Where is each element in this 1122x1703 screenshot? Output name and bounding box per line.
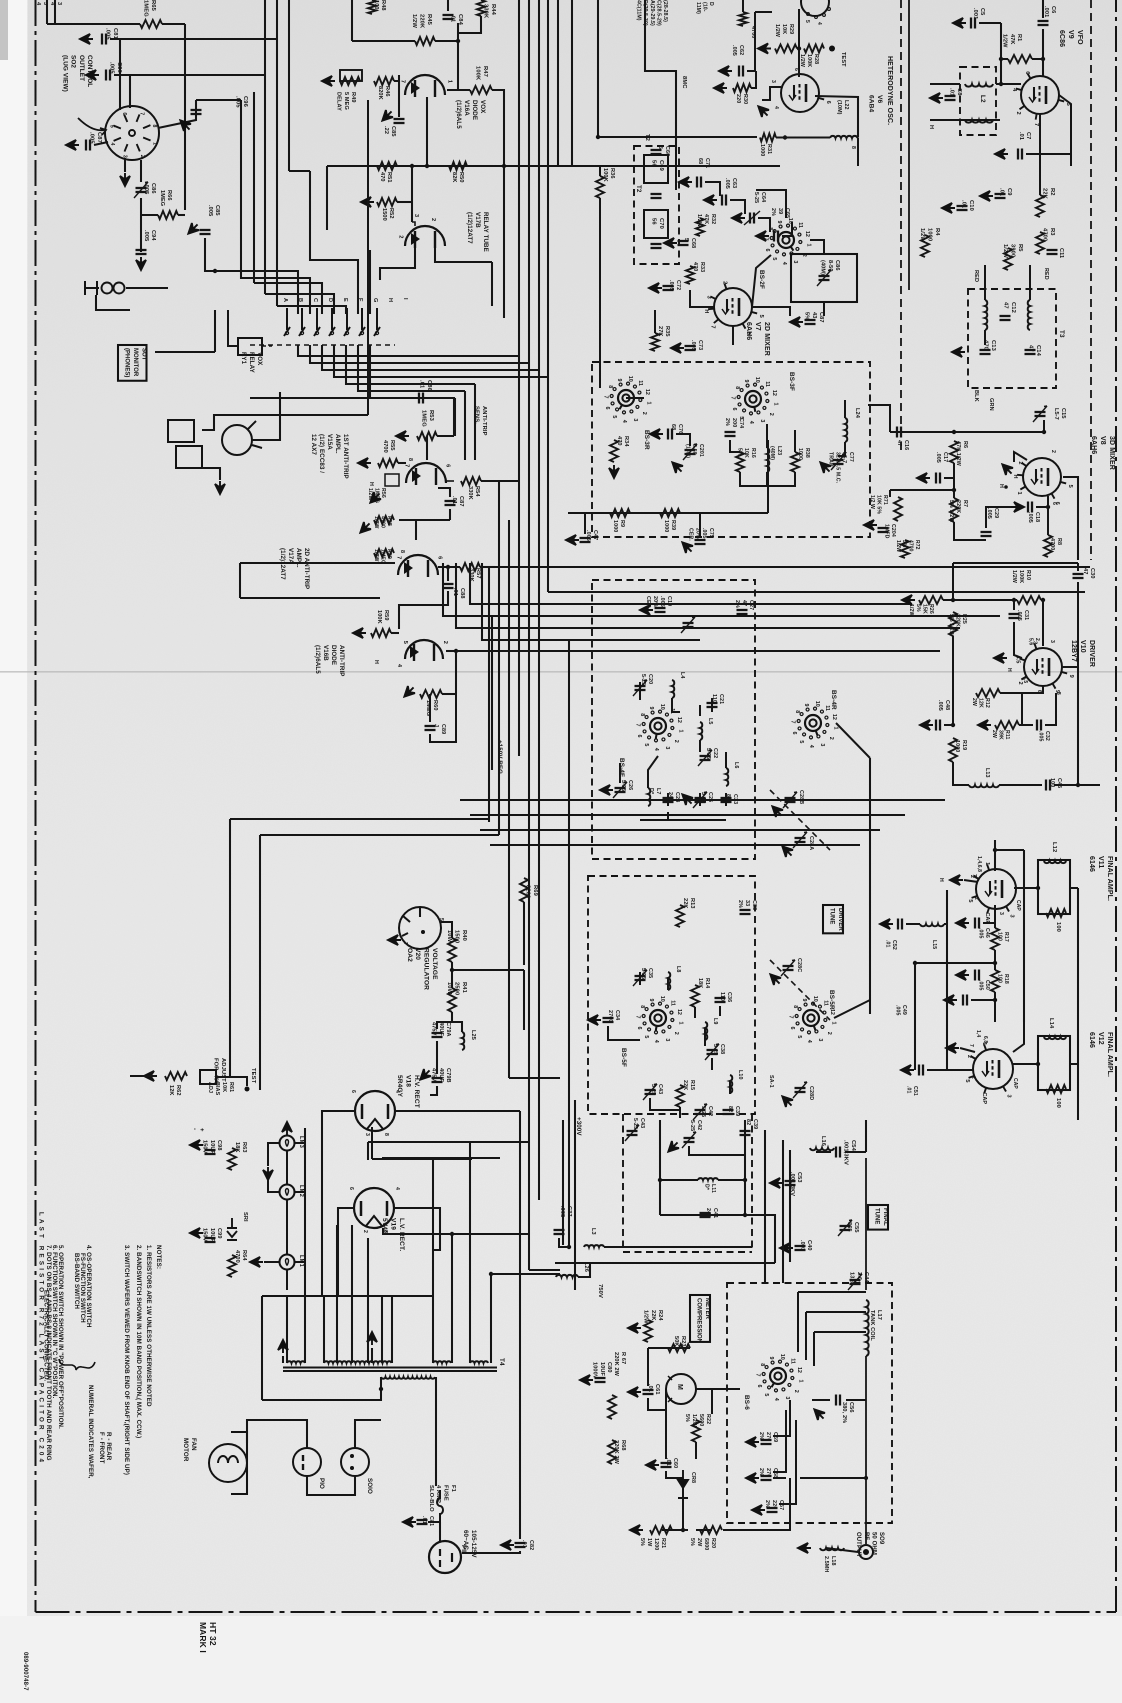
svg-text:1: 1 [805,243,811,246]
wire key jack lead [252,392,280,440]
wire tank tap [813,1332,815,1366]
wire [492,90,504,166]
ground [980,191,993,201]
junction [999,82,1003,86]
wire [954,522,986,540]
capacitor C60 [661,1462,672,1464]
resistor R47 [470,86,492,94]
wire [1077,1064,1079,1120]
wire [446,650,456,652]
svg-text:1/2W: 1/2W [1002,244,1008,258]
wire [946,890,948,1070]
svg-text:8: 8 [151,125,157,128]
svg-text:2: 2 [673,1032,679,1035]
svg-text:.005: .005 [701,528,707,539]
ground C48 [920,720,933,730]
svg-text:DELAY: DELAY [336,92,342,111]
ground R29 [758,44,771,54]
svg-text:6: 6 [731,408,737,411]
svg-text:82: 82 [745,1119,751,1125]
wire [268,1143,279,1166]
svg-text:TEST: TEST [250,1068,256,1084]
svg-text:1. RESISTORS ARE 1W UNLESS OTH: 1. RESISTORS ARE 1W UNLESS OTHERWISE NOT… [145,1245,152,1407]
svg-text:CER.: CER. [688,528,694,541]
wire [562,1120,564,1245]
wire [240,100,242,271]
svg-text:5-25: 5-25 [712,1044,718,1055]
ground R58 [360,522,371,533]
wire [660,1214,745,1216]
label R1 [1002,34,1022,48]
svg-text:7: 7 [968,1044,974,1047]
svg-text:V8: V8 [1099,436,1106,445]
pin label [975,1030,981,1037]
svg-text:R23: R23 [680,1336,686,1347]
label BLK [973,390,979,402]
svg-text:R34: R34 [623,436,629,447]
svg-text:C77: C77 [848,452,854,462]
svg-text:.01: .01 [999,188,1005,197]
wire [695,1442,697,1459]
svg-text:9: 9 [648,707,654,710]
svg-text:C43: C43 [657,1084,663,1094]
svg-text:J: J [433,724,439,727]
node H [928,125,934,129]
ground R34 [609,465,619,478]
ground R52 [361,197,374,207]
transformer T4 winding [470,1361,488,1363]
wire [215,271,298,314]
wire tank tap [798,1291,866,1293]
svg-text:H: H [938,878,944,882]
svg-text:43: 43 [811,312,817,318]
svg-text:C82: C82 [528,1540,534,1550]
transformer T2 winding C70 [644,210,668,238]
inductor L17 tank coil [866,1300,869,1356]
svg-text:9: 9 [648,999,654,1002]
trimmer C77 [842,453,845,456]
svg-text:10UF: 10UF [209,1140,215,1155]
svg-text:27K: 27K [657,326,663,337]
svg-text:12: 12 [804,231,810,237]
capacitor C58 [761,1479,772,1481]
label V9 VFO [1058,30,1083,47]
resistor R19 [949,738,957,762]
capacitor C30 [1073,577,1084,579]
inductor L8 [668,972,670,990]
svg-text:C28A: C28A [808,836,814,850]
label LM3 [298,1136,304,1149]
svg-text:7: 7 [403,464,409,467]
note 4 rear [105,1432,112,1461]
wire [471,1159,473,1363]
label C79A [431,1022,451,1037]
svg-text:220K 2W: 220K 2W [613,1440,619,1465]
svg-text:.001: .001 [1043,6,1049,17]
resistor R33 [686,266,694,284]
capacitor C86a [134,182,148,198]
trimmer C42 [704,1103,707,1106]
svg-text:6: 6 [764,249,770,252]
vacuum tube V11 final amplifier 6146 [967,862,1016,924]
capacitor C8 [945,99,956,101]
svg-text:C73: C73 [697,340,703,350]
ground C81 [80,34,93,44]
label C34 [607,1010,620,1022]
label V15A [310,434,349,479]
ground C77 [820,462,831,473]
svg-text:12 AX7: 12 AX7 [310,434,317,455]
label R68 [613,1440,626,1465]
wire [766,472,768,486]
svg-text:MONITOR: MONITOR [132,348,138,377]
svg-text:6: 6 [437,556,443,559]
svg-text:1/2W: 1/2W [919,228,925,242]
trimmer C43b [627,1134,638,1136]
svg-text:1/2W: 1/2W [373,516,379,529]
svg-text:.005: .005 [207,205,213,216]
svg-text:C55: C55 [853,1222,859,1233]
border bottom [36,1611,1117,1613]
trimmer C28D [795,1087,806,1089]
resistor R6 [950,441,958,463]
svg-text:C11: C11 [1058,248,1064,258]
wire [718,1179,745,1181]
ground V12 [946,1043,959,1053]
capacitor C76 [667,429,669,440]
svg-text:BS-5F: BS-5F [620,1048,627,1067]
capacitor C48 [939,720,941,731]
svg-text:5 MEG: 5 MEG [343,92,349,110]
label V6 [868,95,884,112]
svg-text:9: 9 [803,704,809,707]
junction [410,164,414,168]
wire [762,87,781,100]
capacitor C36 [715,997,726,999]
trimmer C43 [654,1083,657,1086]
wire [626,397,644,399]
svg-text:380, 2%: 380, 2% [841,1402,847,1423]
capacitor C7 [1021,149,1023,160]
trimmer C43 [643,1084,657,1100]
svg-text:11: 11 [822,1000,828,1006]
label C28D [808,1086,814,1100]
wire bus [474,384,476,460]
svg-text:FAN: FAN [190,1438,197,1451]
label C89 [433,724,446,734]
wire bus mid [548,591,1085,593]
wire [447,89,470,91]
svg-text:C99: C99 [216,1228,222,1239]
capacitor C87 [85,140,87,151]
svg-text:R10: R10 [1025,570,1031,580]
svg-text:C79A: C79A [445,1022,451,1037]
wire [953,692,956,694]
capacitor C39 [740,1130,751,1132]
wire [659,1120,661,1215]
label R52 [381,208,394,221]
capacitor C40 [795,1249,806,1251]
svg-text:2.6-: 2.6- [856,1272,862,1282]
svg-text:2: 2 [1015,111,1021,114]
label C26 [620,780,633,791]
wire [776,137,830,139]
svg-text:4700: 4700 [1049,538,1055,550]
capacitor C23 [721,797,732,799]
pin label [402,942,408,945]
resistor R24 [644,1320,652,1342]
wire [430,1086,437,1095]
label C28C [796,958,802,972]
label R8 [1049,538,1062,550]
svg-text:5-25: 5-25 [753,192,759,203]
svg-text:1: 1 [984,862,990,865]
svg-text:10UF: 10UF [209,1228,215,1243]
junction [1041,598,1045,602]
resistor R20 [700,1526,722,1534]
svg-text:10: 10 [814,701,820,707]
lamp LM3 [280,1136,295,1151]
label C43 [632,1118,645,1129]
label 750V [597,1284,603,1298]
svg-text:R4: R4 [934,228,940,236]
capacitor C12 [1000,319,1011,321]
ground C76 [650,429,663,439]
capacitor C53 [785,1180,796,1182]
svg-text:2: 2 [1017,461,1023,464]
label C85 [207,205,220,216]
wire [538,1120,540,1200]
wire grid feed V12 [1023,850,1025,1022]
trimmer C201 [694,443,697,446]
svg-text:220: 220 [771,1500,777,1509]
svg-text:C15: C15 [1060,408,1066,419]
resistor R7 [950,498,958,522]
wire [766,424,768,448]
svg-text:(1/2) ECC83 /: (1/2) ECC83 / [318,434,325,473]
ground C42 [668,1141,679,1152]
capacitor C79B [432,1081,443,1083]
wire [399,591,448,629]
capacitor C56 [839,1395,841,1406]
ground [190,1228,203,1238]
resistor L14 100 [1046,1085,1066,1093]
wire [435,40,458,42]
label C62 [731,45,744,56]
label R36 [602,168,615,182]
svg-text:5-25: 5-25 [689,1120,695,1131]
wire [436,1041,438,1074]
svg-text:15K: 15K [921,604,927,614]
resistor R35 [651,333,659,351]
trimmer C55 [849,1219,852,1222]
junction [952,430,956,434]
inductor L18 [820,1548,844,1550]
capacitor C90 [105,70,107,81]
svg-text:MARK I: MARK I [198,1622,208,1653]
label R2 [1042,188,1055,200]
wire [442,693,456,695]
svg-text:L2: L2 [979,95,986,103]
scan shading gradient [0,0,1,1]
svg-text:56: 56 [651,218,657,225]
note 6 [51,1245,58,1399]
trimmer C42 [682,1132,696,1148]
junction [993,848,997,852]
trimmer C28A [795,837,806,839]
label R26 [908,604,934,617]
wire [604,1246,752,1248]
label V19 LV rect [381,1218,405,1251]
svg-text:2: 2 [1050,450,1056,453]
svg-text:C13: C13 [990,340,996,352]
wire [399,519,450,521]
transformer T3 primary [985,300,987,330]
wire [331,1495,436,1520]
svg-text:6800: 6800 [703,1538,709,1550]
label C86 [820,260,840,275]
wire [47,23,140,25]
wire [519,1111,521,1274]
svg-text:+: + [198,1128,204,1132]
label C10 [961,200,974,211]
svg-text:V15A: V15A [326,434,333,450]
label C96 [235,96,248,108]
resistor R44 [477,0,485,16]
wire [202,468,220,480]
svg-text:L16: L16 [820,1136,826,1146]
wire [696,1529,712,1531]
svg-text:100K: 100K [806,54,812,67]
svg-text:TUNE: TUNE [829,908,835,924]
svg-text:R46: R46 [384,86,390,97]
capacitor C70 [651,243,662,245]
pin label [793,68,799,71]
svg-text:2W: 2W [696,1538,702,1547]
junction [489,1272,493,1276]
wire [503,166,505,318]
svg-text:C14: C14 [1035,345,1041,357]
label LM2 [298,1185,304,1197]
ground [600,785,613,795]
ground [190,1140,203,1150]
capacitor C88c [443,583,454,585]
wire [865,1158,867,1290]
wire [667,978,669,990]
label C45 [1049,778,1062,788]
resistor R28 [804,45,824,53]
svg-text:L18: L18 [830,1556,836,1566]
capacitor C6 [1038,20,1049,22]
capacitor C24 [663,801,674,803]
resistor 4700 [739,12,747,26]
inductor L11 [698,1178,718,1180]
transformer T4 winding [433,1361,451,1363]
wire node row [327,165,560,167]
wire plate V11 [1014,887,1038,889]
svg-text:2: 2 [1017,681,1023,684]
wire [435,248,492,262]
wire [438,488,450,497]
svg-text:T2: T2 [635,185,642,193]
wire [994,992,996,1022]
junction [567,1245,571,1249]
label C6 [1043,6,1056,17]
capacitor C81 [101,34,103,45]
wire [798,9,800,77]
capacitor C82 [515,1542,526,1544]
svg-text:2%: 2% [724,418,730,426]
wire from BS-4R [836,723,870,758]
pin label [350,1090,356,1093]
wire [456,650,502,652]
border right [1115,0,1117,1612]
svg-text:V19: V19 [390,1218,397,1230]
ground C46 [956,918,969,928]
svg-text:R44: R44 [490,4,496,16]
wire T4 HV lead [432,1160,434,1363]
label C56 [841,1402,854,1423]
svg-text:V18: V18 [405,1075,412,1087]
svg-text:4: 4 [396,664,402,667]
pin label [770,80,776,83]
label L5 [707,718,713,725]
svg-text:FINAL AMPL.: FINAL AMPL. [1106,1032,1113,1077]
ground C75 [682,542,693,553]
label C20 [640,674,653,685]
label V7 2d mixer [745,322,770,356]
junction [1076,783,1080,787]
label C88 [452,588,465,599]
trimmer C25 [695,797,706,799]
svg-text:.01: .01 [665,1458,671,1466]
wire grid feed V11 [994,840,996,871]
label C51 [905,1086,918,1096]
svg-text:8: 8 [792,1005,798,1008]
wire [482,563,560,640]
terminal TEST [829,46,835,52]
svg-text:6: 6 [348,1187,354,1190]
wire [264,75,266,294]
svg-text:4: 4 [653,748,659,751]
label C15 [1053,408,1066,420]
resistor R9 [610,509,630,517]
wire [322,1111,355,1296]
lamp LM1 [280,1255,295,1270]
label R20 [689,1538,716,1550]
wire [438,566,460,568]
svg-text:200: 200 [731,418,737,427]
svg-text:C40: C40 [806,1240,812,1251]
wire bus to C30 [953,562,1078,564]
inductor L2 bottom winding [965,120,993,123]
svg-text:1/2W: 1/2W [643,1310,649,1324]
wire [370,345,455,398]
pin label [1022,676,1028,683]
svg-text:100: 100 [1055,1098,1061,1108]
svg-text:H: H [703,309,709,313]
wire [1014,452,1027,462]
capacitor C71 [696,177,698,188]
vacuum tube V16B anti-trip diode [402,640,448,661]
svg-text:270: 270 [765,1468,771,1477]
wire [648,1347,690,1349]
trimmer C26 [613,782,627,798]
svg-text:150V: 150V [202,1228,208,1242]
ground C87 [66,140,79,150]
svg-text:47: 47 [1028,345,1034,352]
svg-text:9: 9 [743,380,749,383]
